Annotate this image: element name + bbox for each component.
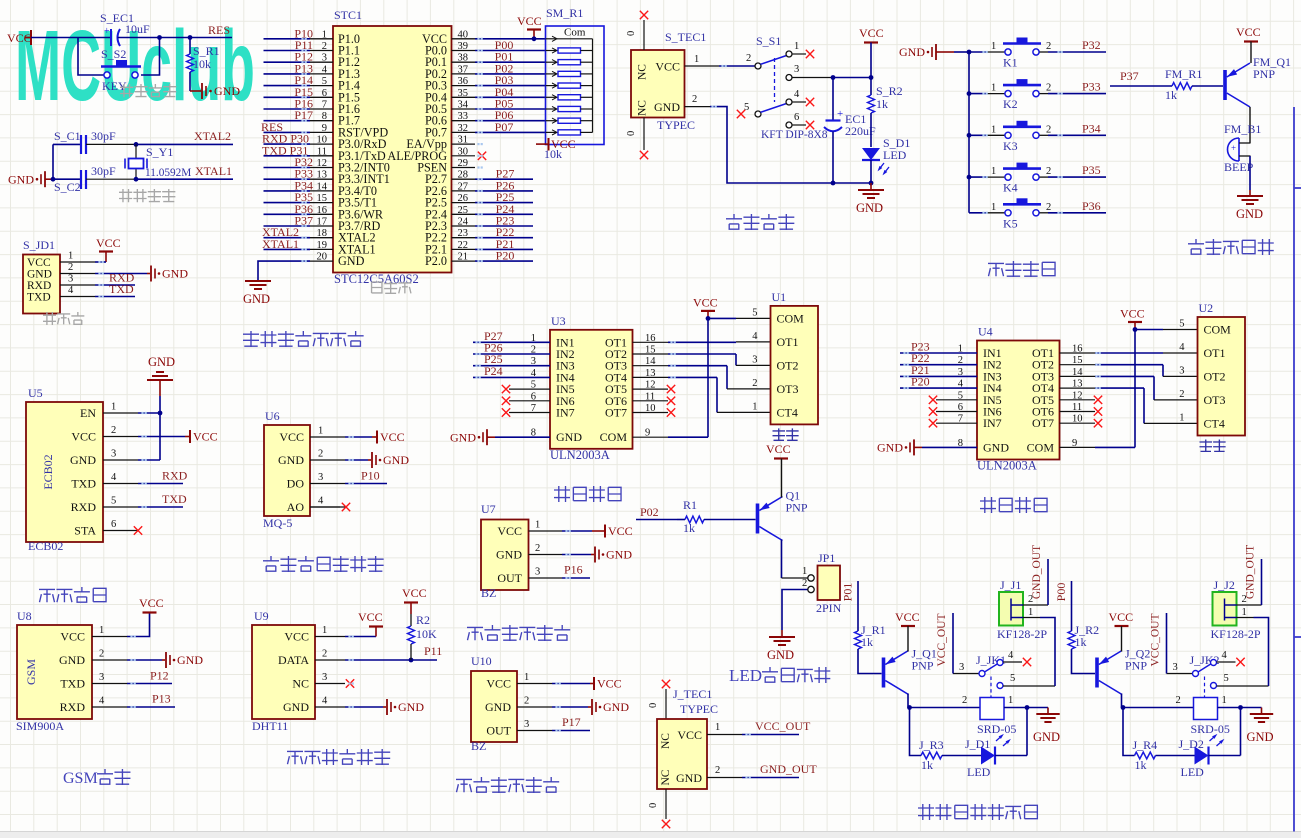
svg-text:SRD-05: SRD-05	[977, 722, 1016, 736]
svg-text:1k: 1k	[861, 635, 873, 649]
svg-text:P20: P20	[496, 249, 515, 263]
designator S_TEC1	[665, 30, 706, 44]
caption 红外避障模块 lower	[456, 777, 559, 793]
U3 COM wire	[633, 436, 709, 438]
svg-text:OT7: OT7	[605, 406, 627, 420]
svg-text:2: 2	[99, 649, 104, 660]
svg-text:P07: P07	[495, 120, 514, 134]
svg-text:VCC: VCC	[279, 430, 304, 444]
svg-text:VCC: VCC	[96, 236, 121, 250]
wire pin23 P22	[452, 225, 534, 239]
designator U2	[1199, 301, 1214, 315]
U8 pin1 stub	[92, 625, 127, 637]
svg-text:KFT DIP-8X8: KFT DIP-8X8	[761, 129, 828, 141]
caption 继电器控制电路	[918, 804, 1037, 820]
U7 GND wire	[562, 547, 632, 563]
junction node ec1-bot	[831, 181, 836, 186]
relay coil SRD-05 (2)	[1191, 698, 1230, 747]
U4 COM wire	[1060, 446, 1136, 448]
svg-text:P10: P10	[361, 469, 380, 483]
svg-text:P34: P34	[1082, 121, 1101, 135]
wire pin26 P25	[452, 190, 534, 204]
resistor J_R4 1k	[1123, 708, 1195, 773]
svg-text:ECB02: ECB02	[41, 454, 55, 489]
svg-text:P20: P20	[911, 375, 930, 389]
ground symbol relay 2	[1247, 708, 1274, 745]
U8 pin3 stub	[92, 672, 127, 684]
wire pin14 P34	[264, 178, 334, 192]
U3 OT4 wire	[633, 377, 771, 412]
JP1 pin2 wire	[782, 578, 808, 630]
svg-text:4: 4	[752, 331, 758, 342]
svg-text:1: 1	[1008, 695, 1013, 706]
svg-text:IN7: IN7	[983, 416, 1002, 430]
svg-text:1: 1	[1222, 695, 1227, 706]
U4 IN6 stub no-ERC	[929, 407, 977, 415]
svg-text:CT4: CT4	[1204, 416, 1225, 430]
wire pin34 P05	[452, 97, 546, 111]
VCC_OUT feed 2	[1150, 613, 1167, 674]
value BZ (U7)	[481, 586, 496, 600]
pushbutton K5 net P36	[969, 198, 1106, 230]
wire pin35 P04	[452, 85, 546, 99]
wire pin5 P14	[264, 73, 334, 87]
svg-text:LED: LED	[729, 666, 762, 685]
U3 OT1 wire	[633, 341, 771, 343]
svg-text:COM: COM	[1027, 440, 1055, 454]
pushbutton K4 net P35	[967, 163, 1106, 195]
designator U10	[471, 654, 492, 668]
svg-text:U1: U1	[772, 290, 787, 304]
U6 pin3 stub	[310, 472, 345, 484]
svg-text:TXD: TXD	[162, 492, 187, 506]
switch S_S1 terminal 3	[786, 64, 871, 81]
wire pin21 P20	[452, 249, 534, 263]
svg-text:1: 1	[1028, 607, 1033, 618]
svg-text:P12: P12	[150, 669, 169, 683]
svg-text:PNP: PNP	[1253, 67, 1275, 81]
junction node vcc-resnet	[532, 36, 537, 41]
svg-text:GND: GND	[603, 700, 629, 714]
svg-text:FM_R1: FM_R1	[1165, 67, 1202, 81]
power ground GND (keys)	[899, 44, 969, 60]
S_TEC1 bottom pin 0	[626, 118, 648, 160]
svg-text:PNP: PNP	[786, 501, 808, 515]
svg-text:JP1: JP1	[818, 551, 835, 565]
svg-text:VCC: VCC	[1236, 25, 1261, 39]
svg-text:TYPEC: TYPEC	[680, 702, 718, 716]
U8 pin4 stub	[92, 696, 127, 708]
svg-text:1: 1	[99, 625, 104, 636]
wire key right drop	[141, 38, 160, 76]
svg-text:2: 2	[1179, 389, 1184, 400]
svg-text:IN7: IN7	[556, 406, 575, 420]
wire pin28 P27	[452, 167, 534, 181]
U4 OT5 stub no-ERC	[1060, 396, 1103, 404]
svg-text:ECB02: ECB02	[28, 539, 63, 553]
svg-text:U6: U6	[265, 409, 280, 423]
wire pin6 P15	[264, 85, 334, 99]
connector U1 body	[752, 306, 818, 425]
svg-text:1: 1	[694, 54, 699, 65]
U8 TXD wire P12	[127, 669, 172, 684]
wire pin17 P37	[264, 214, 334, 228]
svg-text:2: 2	[1176, 695, 1181, 706]
resistor network SM_R1 10k	[546, 26, 605, 145]
wire pin3 P12	[264, 50, 334, 64]
LED J_D1	[965, 708, 1027, 780]
relay coil SRD-05 (1)	[977, 698, 1016, 747]
svg-text:NC: NC	[660, 769, 672, 785]
resistor R1 1k	[677, 498, 756, 535]
svg-text:5: 5	[111, 496, 116, 507]
wire gnd up	[52, 144, 54, 179]
wire gnd to S_C2	[53, 178, 81, 180]
U4 IN1 wire P23	[900, 340, 977, 354]
svg-text:GND: GND	[1236, 207, 1263, 221]
svg-text:VCC: VCC	[71, 430, 96, 444]
U5 pin6 stub	[103, 519, 138, 531]
U6 pin1 stub	[310, 426, 345, 438]
svg-text:2: 2	[1046, 124, 1051, 135]
wire pin24 P23	[452, 214, 534, 228]
U5 STA no-connect	[134, 526, 142, 534]
svg-text:BZ: BZ	[471, 739, 486, 753]
svg-text:XTAL2: XTAL2	[194, 129, 231, 143]
caption 红外避障模块 upper	[467, 625, 570, 641]
svg-text:XTAL1: XTAL1	[262, 237, 299, 251]
value KF128-2P (1)	[997, 627, 1047, 641]
switch S_S1 pole A	[746, 34, 814, 69]
U5 pin4 stub	[103, 472, 138, 484]
svg-text:NC: NC	[660, 733, 672, 749]
svg-text:OT2: OT2	[1204, 369, 1226, 383]
U5 pin5 stub	[103, 496, 138, 508]
U5 pin1 stub	[103, 402, 138, 414]
svg-text:S_TEC1: S_TEC1	[665, 30, 706, 44]
wire pin4 P13	[264, 61, 334, 75]
svg-text:2: 2	[746, 53, 751, 64]
svg-text:U8: U8	[17, 609, 32, 623]
value 插座 (U1)	[773, 428, 799, 441]
svg-text:2: 2	[802, 578, 807, 589]
IC STC1 STC12C5A60S2 body	[317, 26, 469, 273]
value STC12C5A60S2	[334, 272, 419, 286]
capacitor S_C2 30pF	[54, 164, 116, 194]
svg-text:P11: P11	[424, 644, 442, 658]
svg-text:2: 2	[715, 765, 720, 776]
svg-text:COM: COM	[777, 311, 805, 325]
U3 IN5 stub no-ERC	[502, 385, 550, 393]
U3 OT2 wire	[633, 354, 771, 365]
svg-text:OT1: OT1	[1204, 346, 1226, 360]
caption 电源电路	[726, 214, 794, 230]
svg-text:VCC: VCC	[517, 14, 542, 28]
relay switch J_JK1	[953, 650, 1055, 698]
wire pin33 P06	[452, 108, 546, 122]
module U9 DHT11 body	[252, 625, 315, 719]
header JP1 2PIN	[808, 566, 840, 601]
svg-text:GND: GND	[767, 648, 794, 662]
designator U5	[28, 386, 43, 400]
MCUclub logo	[15, 10, 255, 122]
caption 蓝牙模块	[39, 587, 106, 602]
svg-text:5: 5	[1224, 673, 1229, 684]
wire pin20 GND route	[258, 261, 333, 281]
svg-text:1k: 1k	[1135, 758, 1147, 772]
U10 GND wire	[552, 699, 629, 715]
svg-text:ULN2003A: ULN2003A	[550, 448, 610, 462]
svg-text:RXD: RXD	[60, 700, 86, 714]
designator U6	[265, 409, 280, 423]
pushbutton K2 net P33	[967, 79, 1106, 111]
svg-text:GND: GND	[899, 45, 925, 59]
junction node sr2-top	[869, 75, 874, 80]
svg-text:1k: 1k	[1075, 635, 1087, 649]
U6 DO wire P10	[345, 469, 387, 484]
junction node xtal1	[134, 177, 139, 182]
ground symbol buzzer	[1236, 190, 1263, 221]
svg-text:GND: GND	[214, 84, 240, 98]
value SIM900A	[16, 719, 64, 733]
svg-text:S_R1: S_R1	[193, 44, 220, 58]
svg-text:4: 4	[1008, 650, 1014, 661]
svg-text:VCC: VCC	[284, 630, 309, 644]
svg-text:LED: LED	[967, 765, 991, 779]
IC U3 ULN2003A body	[531, 330, 657, 449]
U4 OT1 wire	[1060, 352, 1198, 354]
svg-text:P33: P33	[1082, 80, 1101, 94]
resistor J_R3 1k	[910, 708, 982, 773]
S_JD1 pin3 stub	[60, 274, 95, 286]
svg-text:OT1: OT1	[777, 335, 799, 349]
U9 pin2 stub	[315, 649, 345, 661]
pushbutton S_S2 KEY	[101, 47, 141, 93]
S_JD1 pin2 stub	[60, 262, 95, 274]
svg-text:TXD: TXD	[71, 477, 96, 491]
svg-text:1: 1	[991, 202, 996, 213]
designator S_JD1	[23, 238, 55, 252]
U10 pin2 stub	[517, 696, 552, 708]
wire pin40 VCC	[452, 38, 546, 40]
U5 EN wire	[138, 411, 162, 416]
svg-text:1k: 1k	[876, 97, 888, 111]
svg-text:4: 4	[1222, 650, 1228, 661]
caption 蜂鸣器电路	[1188, 239, 1274, 255]
svg-text:DHT11: DHT11	[252, 719, 288, 733]
S_TEC1 pin1 wire	[685, 54, 755, 66]
U6 pin4 stub	[310, 496, 345, 508]
svg-text:5: 5	[1010, 673, 1015, 684]
svg-text:3: 3	[959, 662, 964, 673]
svg-text:STC12C5A60S2: STC12C5A60S2	[334, 272, 419, 286]
svg-text:P24: P24	[484, 364, 503, 378]
wire S_C2 to node	[86, 178, 136, 180]
designator U4	[978, 325, 993, 339]
svg-text:P01: P01	[841, 583, 855, 602]
power port VCC (jd1)	[95, 236, 121, 262]
designator SM_R1	[546, 6, 583, 20]
svg-text:3: 3	[68, 274, 73, 285]
transistor FM_Q1 PNP	[1225, 55, 1291, 107]
module U5 ECB02 body	[26, 402, 103, 542]
svg-text:P00: P00	[1054, 583, 1068, 602]
caption 按键复位	[120, 84, 176, 97]
caption 步进电机 right	[980, 497, 1047, 513]
connector U2 body	[1179, 317, 1245, 436]
wire key left drop	[78, 38, 104, 76]
svg-text:K2: K2	[1003, 97, 1018, 111]
svg-text:GND_OUT: GND_OUT	[760, 762, 817, 776]
J_TEC1 bottom no-ERC	[648, 789, 670, 828]
svg-text:GND: GND	[162, 267, 188, 281]
svg-text:Com: Com	[564, 27, 586, 39]
wire S_C1 to node	[86, 143, 136, 145]
svg-text:DO: DO	[287, 477, 305, 491]
svg-text:S_S1: S_S1	[756, 34, 781, 48]
wire pin19 XTAL1	[262, 237, 333, 251]
pushbutton K3 net P34	[967, 121, 1106, 153]
svg-text:S_S2: S_S2	[101, 47, 126, 61]
svg-text:1k: 1k	[683, 521, 695, 535]
J_TEC1 pin1 VCC_OUT	[707, 719, 811, 735]
wire pin1 P10	[264, 26, 334, 40]
svg-text:COM: COM	[600, 430, 628, 444]
svg-text:U7: U7	[481, 502, 496, 516]
U7 pin3 stub	[529, 567, 563, 579]
svg-text:P2.0: P2.0	[425, 254, 447, 268]
svg-text:GND: GND	[676, 771, 702, 785]
U4 OT6 stub no-ERC	[1060, 407, 1103, 415]
svg-text:OUT: OUT	[486, 724, 511, 738]
svg-text:VCC: VCC	[677, 728, 702, 742]
svg-text:1: 1	[524, 672, 529, 683]
U3 IN1 wire P27	[473, 329, 550, 343]
wire pin22 P21	[452, 237, 534, 251]
wire RES stub	[190, 37, 232, 39]
value TYPEC	[657, 118, 695, 132]
svg-text:5: 5	[744, 102, 749, 113]
svg-text:1: 1	[715, 722, 720, 733]
svg-text:R2: R2	[416, 613, 430, 627]
value KFT DIP-8X8	[761, 129, 828, 141]
value KF128-2P (2)	[1211, 627, 1261, 641]
caption 步进电机 left	[554, 486, 621, 502]
power port VCC (supply)	[859, 26, 884, 78]
svg-text:2: 2	[752, 378, 757, 389]
svg-text:0: 0	[626, 31, 637, 36]
svg-text:VCC: VCC	[139, 596, 164, 610]
IC U4 ULN2003A body	[958, 341, 1084, 460]
svg-text:GND: GND	[383, 453, 409, 467]
U9 NC no-connect	[346, 679, 354, 687]
svg-text:GND: GND	[148, 355, 175, 369]
S_JD1 pin1 stub	[60, 251, 95, 263]
svg-text:SM_R1: SM_R1	[546, 6, 583, 20]
wire VCC to S_EC1	[31, 37, 111, 39]
svg-text:S_Y1: S_Y1	[146, 145, 173, 159]
LED J_D2	[1179, 708, 1241, 780]
svg-text:VCC: VCC	[859, 26, 884, 40]
svg-text:P16: P16	[564, 563, 583, 577]
J_TEC1 pin2 GND_OUT	[707, 762, 817, 778]
svg-text:VCC_OUT: VCC_OUT	[936, 613, 948, 666]
U3 OT6 stub no-ERC	[633, 397, 676, 405]
svg-text:1: 1	[111, 402, 116, 413]
svg-text:J_J2: J_J2	[1214, 578, 1235, 592]
svg-text:GND: GND	[338, 254, 365, 268]
capacitor S_EC1 10uF	[100, 11, 150, 46]
resistor J_R2 1k	[1068, 623, 1099, 674]
svg-text:6: 6	[111, 519, 116, 530]
svg-text:GND: GND	[556, 430, 582, 444]
svg-text:S_C1: S_C1	[54, 129, 81, 143]
U5 pin3 stub	[103, 449, 138, 461]
U5 RXD wire TXD label	[138, 492, 187, 507]
svg-text:P36: P36	[1082, 199, 1101, 213]
ground symbol U5 (inverted)	[147, 355, 175, 460]
wire pin27 P26	[452, 178, 534, 192]
svg-text:GSM: GSM	[63, 770, 98, 787]
svg-text:P37: P37	[1120, 69, 1139, 83]
designator U3	[551, 314, 566, 328]
U9 DATA wire P11	[345, 644, 442, 662]
svg-text:VCC: VCC	[1120, 307, 1145, 321]
U4 OT3 wire	[1060, 376, 1198, 400]
svg-text:J_R4: J_R4	[1133, 738, 1158, 752]
wire pin32 P07	[452, 120, 546, 134]
svg-text:S_R2: S_R2	[876, 84, 903, 98]
designator J_TEC1	[673, 687, 712, 701]
svg-text:U5: U5	[28, 386, 43, 400]
svg-text:J_D2: J_D2	[1179, 737, 1204, 751]
pin29 stub	[452, 167, 476, 169]
svg-text:LED: LED	[1181, 765, 1205, 779]
svg-text:VCC: VCC	[655, 60, 680, 74]
resistor R2 10K	[402, 586, 437, 660]
svg-text:30pF: 30pF	[91, 129, 116, 143]
svg-text:1k: 1k	[921, 758, 933, 772]
wire pin37 P02	[452, 61, 546, 75]
svg-text:J_D1: J_D1	[965, 737, 990, 751]
svg-text:KF128-2P: KF128-2P	[1211, 627, 1261, 641]
U10 VCC wire	[552, 677, 622, 691]
power port VCC (relay 2)	[1109, 610, 1134, 652]
svg-text:STA: STA	[74, 524, 96, 538]
U4 OT7 stub no-ERC	[1060, 419, 1103, 427]
designator J_J1	[1000, 578, 1021, 592]
svg-text:2: 2	[524, 696, 529, 707]
svg-text:+: +	[837, 108, 843, 120]
svg-text:2: 2	[318, 449, 323, 460]
U8 VCC wire	[127, 596, 164, 637]
svg-text:COM: COM	[1204, 323, 1232, 337]
S_JD1 TXD wire	[95, 282, 135, 297]
svg-text:NC: NC	[292, 677, 309, 691]
crystal S_Y1 11.0592M	[125, 144, 191, 179]
svg-text:GND: GND	[983, 440, 1009, 454]
svg-text:10K: 10K	[416, 627, 437, 641]
svg-text:GND: GND	[27, 269, 52, 281]
buzzer FM_B1 BEEP	[1224, 122, 1261, 174]
svg-text:4: 4	[1179, 342, 1185, 353]
svg-text:P35: P35	[1082, 163, 1101, 177]
svg-text:1: 1	[991, 41, 996, 52]
svg-text:VCC: VCC	[497, 524, 522, 538]
svg-text:GND: GND	[59, 653, 85, 667]
svg-text:GND: GND	[485, 700, 511, 714]
wire pin12 P32	[264, 155, 334, 169]
